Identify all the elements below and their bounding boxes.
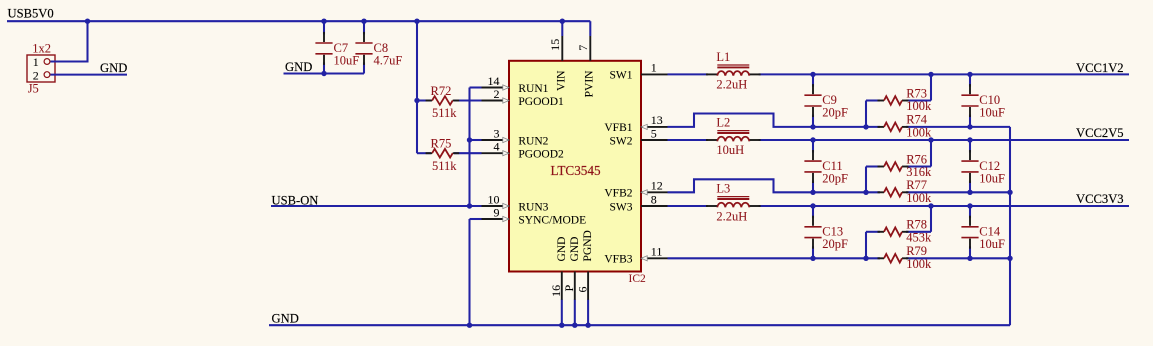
svg-text:R72: R72 (431, 84, 452, 98)
svg-text:12: 12 (651, 179, 663, 193)
svg-text:VCC3V3: VCC3V3 (1076, 192, 1124, 206)
svg-text:9: 9 (494, 205, 500, 219)
svg-text:20pF: 20pF (822, 106, 848, 120)
svg-text:8: 8 (651, 192, 657, 206)
svg-text:L2: L2 (716, 116, 730, 130)
svg-text:SW3: SW3 (610, 201, 633, 213)
svg-text:IC2: IC2 (629, 273, 647, 285)
svg-text:VFB2: VFB2 (604, 188, 632, 200)
svg-text:PGND: PGND (582, 230, 594, 261)
svg-text:VIN: VIN (556, 70, 568, 91)
svg-text:J5: J5 (28, 82, 39, 96)
svg-text:4: 4 (494, 140, 500, 154)
svg-text:5: 5 (651, 126, 657, 140)
svg-text:P: P (562, 285, 576, 292)
svg-text:2.2uH: 2.2uH (716, 210, 747, 224)
svg-text:11: 11 (651, 245, 663, 259)
svg-text:16: 16 (549, 285, 563, 297)
svg-text:PGOOD1: PGOOD1 (518, 96, 564, 108)
svg-text:316k: 316k (906, 165, 932, 179)
svg-text:VCC1V2: VCC1V2 (1076, 61, 1124, 75)
svg-text:SW2: SW2 (610, 135, 633, 147)
svg-text:453k: 453k (906, 230, 932, 244)
svg-text:15: 15 (548, 39, 562, 51)
svg-text:RUN1: RUN1 (518, 83, 548, 95)
svg-text:VCC2V5: VCC2V5 (1076, 126, 1124, 140)
svg-text:GND: GND (285, 60, 312, 74)
svg-text:2: 2 (33, 68, 39, 82)
svg-text:1: 1 (651, 61, 657, 75)
svg-text:USB5V0: USB5V0 (8, 7, 54, 21)
svg-text:511k: 511k (432, 159, 457, 173)
svg-text:10uF: 10uF (979, 172, 1005, 186)
svg-text:SYNC/MODE: SYNC/MODE (518, 214, 586, 226)
svg-text:13: 13 (651, 113, 663, 127)
svg-text:GND: GND (556, 237, 568, 262)
svg-text:SW1: SW1 (610, 70, 633, 82)
svg-text:GND: GND (100, 61, 127, 75)
svg-text:1: 1 (33, 55, 39, 69)
svg-text:10uF: 10uF (334, 53, 360, 67)
svg-text:LTC3545: LTC3545 (551, 163, 601, 178)
svg-text:VFB1: VFB1 (604, 122, 632, 134)
svg-text:100k: 100k (906, 257, 932, 271)
svg-text:10: 10 (488, 192, 500, 206)
svg-text:VFB3: VFB3 (604, 254, 632, 266)
svg-text:RUN3: RUN3 (518, 201, 548, 213)
svg-text:10uH: 10uH (716, 143, 744, 157)
svg-text:14: 14 (488, 74, 500, 88)
svg-text:7: 7 (576, 45, 590, 51)
svg-text:511k: 511k (432, 106, 457, 120)
svg-text:RUN2: RUN2 (518, 135, 548, 147)
svg-text:2: 2 (494, 87, 500, 101)
svg-text:USB-ON: USB-ON (272, 194, 319, 208)
svg-text:L1: L1 (716, 50, 730, 64)
svg-text:R75: R75 (431, 137, 452, 151)
svg-text:PGOOD2: PGOOD2 (518, 149, 564, 161)
svg-text:2.2uH: 2.2uH (716, 77, 747, 91)
svg-text:10uF: 10uF (979, 237, 1005, 251)
svg-text:20pF: 20pF (822, 172, 848, 186)
svg-text:3: 3 (494, 126, 500, 140)
svg-text:PVIN: PVIN (584, 70, 596, 98)
svg-text:100k: 100k (906, 99, 932, 113)
svg-text:100k: 100k (906, 191, 932, 205)
svg-text:100k: 100k (906, 126, 932, 140)
svg-text:10uF: 10uF (979, 106, 1005, 120)
svg-text:4.7uF: 4.7uF (374, 53, 403, 67)
svg-text:L3: L3 (716, 182, 730, 196)
svg-text:1x2: 1x2 (32, 41, 51, 55)
svg-text:GND: GND (272, 312, 299, 326)
svg-text:20pF: 20pF (822, 237, 848, 251)
svg-text:6: 6 (575, 287, 589, 293)
svg-text:GND: GND (569, 237, 581, 262)
